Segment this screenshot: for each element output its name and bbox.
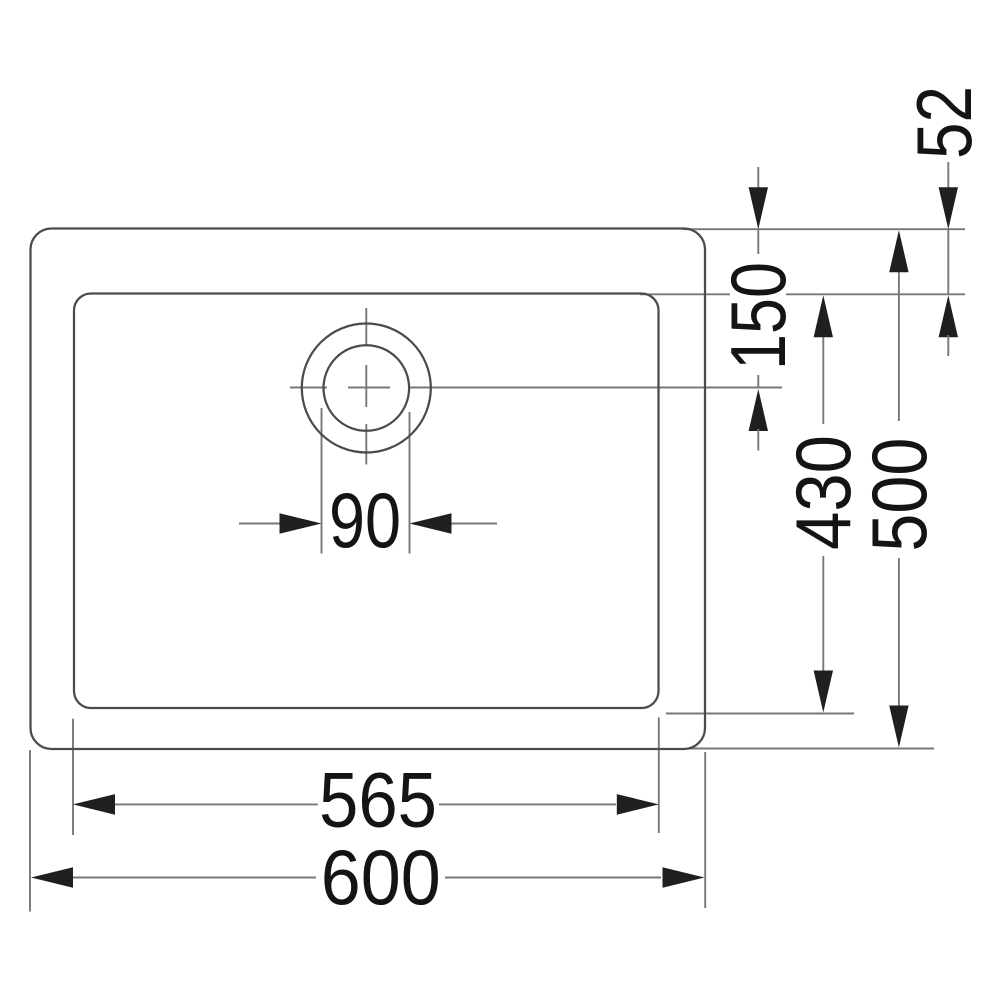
dimension 150 line: [757, 167, 759, 189]
extension line hole-right: [409, 412, 411, 554]
svg-text:430: 430: [779, 435, 867, 550]
dimension 600 arrow right: [663, 867, 705, 888]
dimension 150 arrow top: [749, 187, 768, 229]
dimension 52 arrow bottom: [939, 295, 958, 337]
dimension 430 arrow top: [814, 295, 833, 337]
dimension 430 text: [795, 424, 853, 556]
extension line outer-left-down: [29, 750, 31, 912]
dimension 150 tail bottom: [757, 429, 759, 451]
svg-text:600: 600: [321, 833, 441, 921]
dimension 52 mid line: [947, 229, 949, 294]
svg-text:500: 500: [855, 438, 943, 552]
svg-text:565: 565: [319, 755, 437, 843]
dimension 52 arrow top: [939, 187, 958, 229]
extension line hole-left: [321, 408, 323, 554]
svg-text:52: 52: [900, 86, 988, 159]
dimension 565 arrow left: [73, 794, 115, 815]
svg-text:150: 150: [714, 262, 802, 370]
dimension 52 tail bottom: [947, 335, 949, 356]
extension line inner-left-down: [72, 719, 74, 835]
dimension 150 mid line: [757, 229, 759, 387]
dimension 52 line: [947, 162, 949, 188]
extension line inner-right-down: [658, 718, 660, 834]
svg-text:90: 90: [329, 476, 401, 564]
dimension 150 arrow bottom: [749, 389, 768, 431]
dimension 430 line: [822, 334, 824, 672]
dimension 600 arrow left: [31, 867, 73, 888]
dimension 90 line left tail: [239, 523, 281, 525]
drain outer circle: [302, 324, 431, 453]
dimension 565 arrow right: [617, 794, 659, 815]
dimension 90 line right tail: [450, 523, 497, 525]
inner bowl rounded rectangle: [74, 294, 659, 709]
extension line inner-bottom: [666, 713, 854, 715]
dimension 150 text: [730, 254, 786, 375]
dimension 565 text: [318, 768, 439, 830]
dimension 500 arrow bottom: [889, 706, 908, 748]
dimension 90 arrow right: [410, 513, 452, 534]
dimension 500 line: [898, 269, 900, 707]
dimension 500 arrow top: [889, 230, 908, 272]
dimension 565 line: [114, 803, 616, 805]
dimension 600 text: [316, 846, 445, 908]
dimension 90 text: [324, 491, 406, 551]
extension line outer-bottom: [688, 748, 934, 750]
dimension 600 line: [72, 877, 661, 879]
dimension 500 text: [868, 421, 928, 558]
dimension 430 arrow bottom: [814, 671, 833, 713]
drain inner circle: [324, 345, 410, 431]
dimension 90 arrow left: [280, 513, 322, 534]
extension line outer-top: [683, 228, 965, 230]
centerline horizontal: [290, 387, 782, 389]
extension line inner-top: [640, 293, 965, 295]
extension line outer-right-down: [704, 752, 706, 908]
outer sink rim rounded rectangle: [31, 229, 706, 750]
centerline vertical: [365, 308, 367, 465]
